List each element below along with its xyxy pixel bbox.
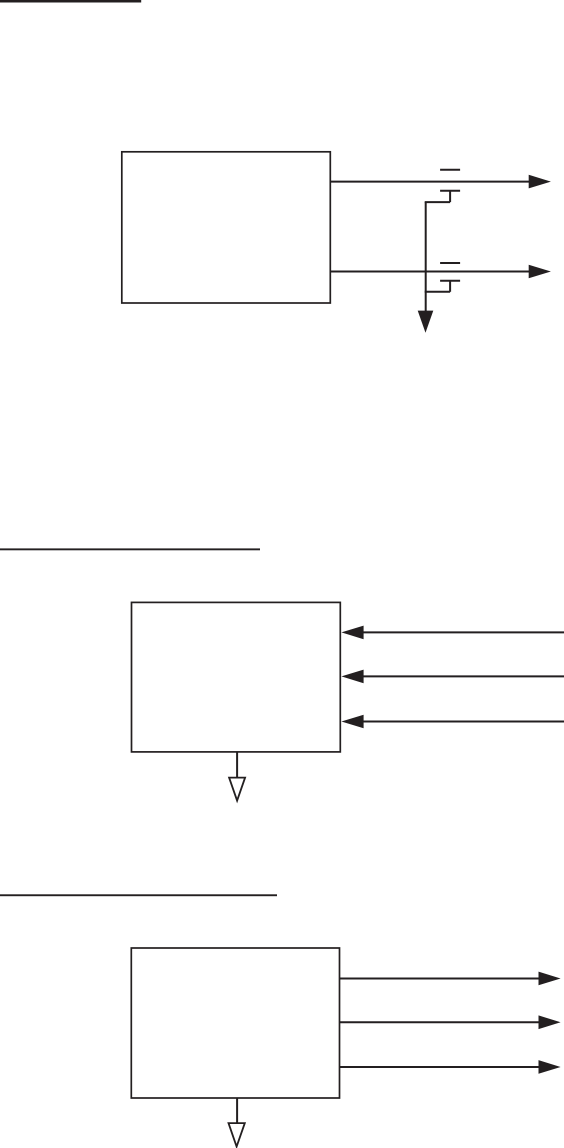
block U2 (figure 2 box) [132,602,341,752]
wire: upper output line from U1 [330,181,530,183]
wire: input line 3 to U2 [363,721,564,723]
arrowhead (input 1, left) [341,626,363,640]
wire: output line 3 from U3 [340,1066,541,1068]
wire: input line 1 to U2 [363,631,564,633]
wire: output line 2 from U3 [340,1021,541,1023]
pin symbol upper: bar below line [440,190,460,192]
arrowhead (output 2, right) [539,1015,561,1029]
wire: common vertical line to ground [425,202,427,311]
pin symbol upper: vertical gate segment [449,191,451,202]
heading underline (section 3) [0,894,277,896]
wire: lower output line from U1 [330,271,530,273]
wire: stub below U2 [236,752,238,777]
open arrow below U3 (hollow, down) [229,1123,245,1147]
arrowhead (input 3, left) [341,715,363,729]
heading underline (section 2) [0,548,260,550]
pin symbol lower: vertical gate segment [449,281,451,292]
heading underline (section 1, cropped at top) [0,0,141,3]
wire: output line 1 from U3 [340,978,541,980]
arrowhead (output 1, right) [539,972,561,986]
open arrow below U2 (hollow, down) [229,778,245,801]
arrowhead (lower output, right) [529,265,551,279]
pin symbol lower: bar above line [440,262,460,264]
pin symbol lower: bar below line [440,280,460,282]
wire: input line 2 to U2 [363,675,564,677]
ground arrow (filled, down) [418,311,434,333]
pin symbol upper: bar above line [440,169,460,171]
arrowhead (output 3, right) [539,1060,561,1074]
block U1 (figure 1 box) [122,152,330,303]
wire: stub below U3 [236,1098,238,1123]
pin symbol upper: horizontal gate segment [425,201,450,203]
arrowhead (upper output, right) [529,175,551,189]
pin symbol lower: horizontal gate segment [425,291,450,293]
block U3 (figure 3 box) [131,948,339,1098]
arrowhead (input 2, left) [341,670,363,684]
